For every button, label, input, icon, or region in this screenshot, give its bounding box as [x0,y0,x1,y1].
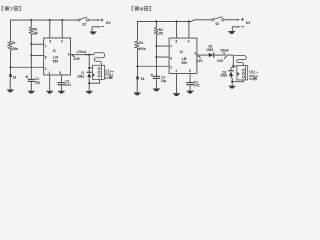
wire: R2 down to C1 [155,35,157,76]
wire: pin7 stub [31,43,43,45]
ground (C1) [28,91,35,94]
wire: pin 4 to rail [61,20,63,38]
node dot relay bottom [88,82,90,84]
ground (relay/diode) [229,86,236,89]
timer IC LM555 box [169,38,197,73]
ground (pin1) [46,91,53,94]
wire: pin 1 to ground [176,73,178,93]
ground (C2) [58,91,65,94]
svg-text:0.01: 0.01 [194,84,200,88]
op-amp/timer IC LM555 box [44,38,71,75]
node dot R2/rail [155,20,157,22]
current arrowhead on wire [223,52,225,54]
wire: R1 to S1 [10,51,12,74]
resistor R2 [29,27,33,35]
relay coil scroll [94,53,105,66]
relay text リレー G6V-1 5V用 [249,71,258,81]
voltage label 4.6V with pointer [196,55,203,63]
node dot coil-top junction [88,67,90,69]
svg-text:10E1: 10E1 [206,48,214,52]
figure label 第7図 [2,6,20,11]
minus sign [241,26,244,28]
wire: pin 3 output to diode [197,54,209,56]
wire: R1 branch top [10,20,12,42]
ground (relay/diode) [86,91,93,94]
svg-text:4.6V: 4.6V [74,57,81,61]
svg-text:R1: R1 [11,41,15,45]
svg-text:0.01: 0.01 [65,83,71,87]
resistor R1 [135,41,139,50]
wire: R1 to S1 [137,50,139,77]
svg-text:8: 8 [140,6,143,11]
svg-text:100k: 100k [11,47,18,51]
wire: top rail [11,19,78,21]
svg-text:6: 6 [170,57,172,61]
node dot pin7 [30,43,32,45]
svg-text:10μ: 10μ [35,80,40,84]
relay box [237,66,248,80]
switch S2 [212,17,224,26]
ground (S1) [134,92,141,95]
svg-text:3: 3 [68,52,70,56]
diode D2 (flyback) [220,66,233,85]
svg-text:1M: 1M [33,31,38,35]
node dot diode/output [88,54,90,56]
diode D1 (series) [206,45,214,58]
svg-text:7: 7 [170,44,172,48]
wire: pin 5 down [60,75,62,83]
wire: R2 down to C1 [30,35,32,79]
svg-text:3: 3 [194,51,196,55]
figure label 第8図 [132,6,150,11]
minus sign [101,25,104,27]
wire: pin7 stub [156,45,169,47]
wire: arrow to battery plus [224,19,240,21]
wire: R2 branch top [30,20,32,27]
svg-text:3.9V: 3.9V [217,59,224,63]
svg-text:S2: S2 [82,23,86,27]
capacitor C1 (electrolytic) [26,76,41,91]
capacitor C2 [187,80,200,90]
node dot pin7 [155,45,157,47]
wire: relay bottom to ground junction [89,79,99,83]
ground (battery minus) [90,31,97,34]
relay text リレー G6V-1 5V用 [105,70,114,80]
svg-text:555: 555 [53,60,58,64]
wire: pin 8 to rail [176,21,178,38]
relay coil scroll [235,55,247,65]
svg-text:100k: 100k [139,47,146,51]
svg-text:10E1: 10E1 [77,75,85,79]
wire: pin2 run [138,65,170,67]
svg-text:6V: 6V [246,21,251,25]
svg-text:10E1: 10E1 [220,74,228,78]
resistor R2 [154,27,158,35]
svg-text:5: 5 [189,69,191,73]
voltage label 3.9V with pointer [217,56,227,63]
svg-text:1: 1 [175,69,177,73]
wire: arrow from ground to minus [92,26,100,31]
node dot pin4/rail [188,20,190,22]
wire: arrow to battery plus [89,19,100,21]
wire: pin 5 down [189,73,191,82]
ground (battery minus) [228,31,235,34]
wire: arrow from ground to minus [232,26,240,31]
wire: relay bottom to ground junction [232,80,243,82]
svg-text:4: 4 [188,40,190,44]
svg-text:2: 2 [45,67,47,71]
wire: pin6 stub [31,54,43,56]
wire: junction stub to relay box [89,67,92,69]
node dot pin2/R1 [9,66,11,68]
capacitor C2 [58,80,71,91]
svg-text:7: 7 [10,6,13,11]
wire: pin 4 to rail [188,21,190,38]
switch S1 [136,76,144,92]
svg-text:4.6V: 4.6V [196,59,203,63]
ground (pin1) [173,93,180,96]
svg-text:8: 8 [49,40,51,44]
switch S2 [78,17,89,27]
svg-text:25mA: 25mA [220,49,229,53]
voltage label 4.6V with pointer [72,55,81,61]
node dot pin8/rail [176,20,178,22]
svg-text:8: 8 [176,40,178,44]
svg-text:6: 6 [45,56,47,60]
node dot pin2/R1 [136,65,138,67]
svg-text:IC: IC [53,49,57,53]
capacitor C1 (electrolytic) [151,74,167,89]
wire: top rail [138,20,212,22]
svg-text:S2: S2 [215,22,219,26]
svg-text:S1: S1 [141,77,145,81]
svg-text:R1: R1 [139,41,143,45]
svg-text:4: 4 [61,40,63,44]
node dot pin8/rail [49,19,51,21]
ground (C1) [153,88,160,91]
svg-text:10μ: 10μ [161,79,166,83]
node dot relay bottom [231,81,233,83]
wire: pin 3 output [71,54,94,56]
resistor R1 [8,42,12,51]
current arrowhead on output wire [86,54,88,56]
plus sign [241,18,244,21]
svg-text:≈27mA: ≈27mA [76,50,87,54]
wire: pin 1 to ground [49,75,51,91]
svg-text:2: 2 [170,65,172,69]
svg-text:6V: 6V [106,21,111,25]
plus sign [101,19,104,22]
wire: R2 branch top [155,21,157,27]
svg-text:1M: 1M [158,31,163,35]
relay box [92,65,104,79]
svg-text:555: 555 [182,61,187,65]
node dot pin6 [155,56,157,58]
wire: R1 branch top [137,21,139,41]
ground (C2) [187,91,194,94]
svg-text:7: 7 [45,45,47,49]
svg-text:IC: IC [180,50,184,54]
svg-text:5: 5 [59,71,61,75]
wire: junction stub to relay box [233,65,237,67]
ground (S1) [7,89,14,92]
svg-text:S1: S1 [13,75,17,79]
node dot pin6 [30,54,32,56]
node dot coil-top junction [232,65,234,67]
wire: pin2 run [11,66,44,68]
switch S1 [9,74,16,89]
node dot pin4/rail [61,19,63,21]
wire: pin 8 to rail [49,20,51,38]
diode D (flyback) [77,55,91,91]
wire: pin6 stub [156,56,169,58]
wire: diode to relay corner [214,55,234,68]
node dot R2/rail [30,19,32,21]
